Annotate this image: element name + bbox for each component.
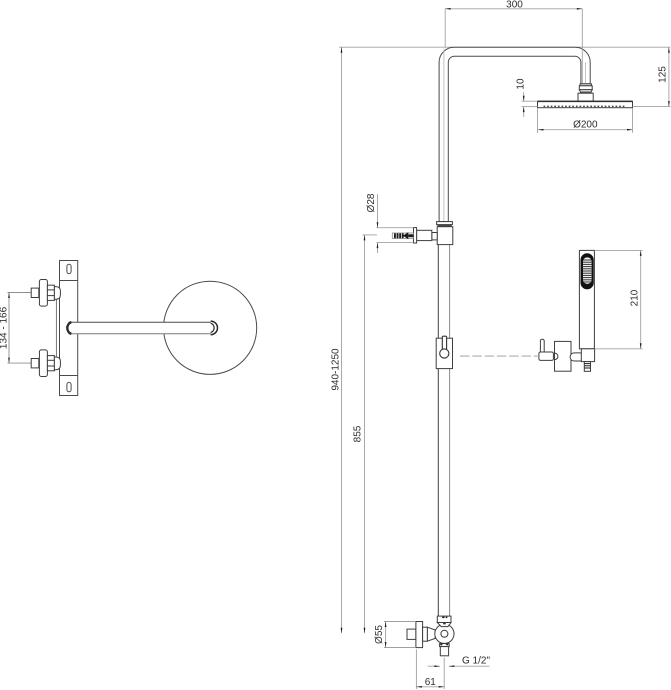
dimension 210 extension lines	[595, 249, 643, 251]
hose barb	[392, 233, 413, 239]
holder pivot	[555, 353, 558, 360]
diverter seal band	[437, 225, 451, 227]
slider bracket pin	[442, 336, 446, 350]
head connector nut	[579, 84, 592, 93]
head connector block	[578, 93, 593, 101]
nozzle dots	[544, 106, 625, 108]
svg-text:125: 125	[658, 66, 669, 83]
arm ball joint	[211, 321, 218, 335]
diverter stem	[417, 230, 432, 240]
diverter T body	[437, 227, 453, 245]
holder lever arm	[539, 352, 554, 360]
dimension O28 extension lines	[377, 227, 414, 229]
dimension 855	[364, 235, 366, 633]
dimension 300	[445, 8, 582, 10]
bottom valve inlet nut	[437, 616, 451, 627]
wall plate	[60, 261, 78, 396]
dimension 61 extension lines	[415, 650, 417, 690]
drop highlight line	[585, 63, 587, 84]
dimension 10	[523, 92, 525, 101]
svg-text:10: 10	[516, 78, 527, 90]
svg-text:300: 300	[506, 0, 523, 10]
dimension 61	[416, 686, 444, 688]
dimension 855 extension	[363, 234, 378, 236]
top fitting	[31, 280, 60, 307]
dimension 134-166 extension line top	[8, 292, 32, 294]
dimension O55 extension lines	[384, 621, 416, 623]
wall nipple	[407, 629, 416, 639]
dimension O55	[385, 622, 387, 648]
svg-text:Ø200: Ø200	[573, 119, 598, 130]
slider bracket	[436, 338, 452, 368]
wall flange	[416, 622, 423, 648]
holder lever	[540, 339, 544, 353]
diverter left port	[432, 233, 437, 240]
svg-text:Ø55: Ø55	[374, 625, 385, 644]
arm wall cap	[67, 322, 71, 334]
dimension O200 extension lines	[537, 108, 539, 133]
svg-text:61: 61	[425, 677, 437, 688]
dimension 210	[640, 250, 642, 348]
outlet tube	[440, 647, 448, 656]
holder arm	[570, 353, 581, 361]
svg-text:G 1/2": G 1/2"	[462, 656, 490, 667]
holder block	[555, 341, 572, 371]
valve body strip	[55, 299, 57, 357]
upper tube with top bend	[439, 47, 590, 221]
dimension 134-166 extension line bottom	[8, 362, 32, 364]
diverter flange	[414, 228, 417, 243]
svg-text:Ø28: Ø28	[366, 193, 377, 212]
hand shower hose nipple	[584, 362, 590, 372]
dimension 940-1250	[341, 47, 343, 633]
hand shower lower block	[581, 349, 594, 362]
diverter T collar	[437, 222, 453, 225]
dimension 10 extension lines	[522, 100, 538, 102]
outlet thread band	[440, 644, 450, 647]
svg-text:940-1250: 940-1250	[331, 348, 342, 391]
dimension 134-166	[8, 293, 10, 364]
slider knob	[440, 349, 449, 358]
dimension O28	[377, 194, 379, 228]
valve inner	[441, 630, 448, 637]
overhead shower disc (top view circle)	[164, 281, 257, 374]
extension line top (940-1250 / 125)	[339, 46, 670, 48]
G 1/2 leader	[428, 665, 440, 667]
dimension 125	[633, 106, 671, 108]
overhead shower head (front)	[538, 101, 633, 107]
dimension O200	[538, 129, 633, 131]
riser highlight line	[443, 50, 445, 222]
dashed reference line	[460, 355, 538, 357]
valve collar	[423, 627, 428, 641]
bottom fitting	[31, 350, 60, 377]
valve cone	[427, 627, 435, 641]
hand shower body	[579, 250, 594, 348]
svg-text:855: 855	[353, 425, 364, 442]
lower tube	[438, 245, 449, 617]
shower arm	[69, 322, 211, 334]
dimension 300 extension lines	[444, 9, 446, 47]
svg-text:210: 210	[629, 289, 640, 306]
hand shower spray face	[581, 253, 594, 289]
svg-text:134 - 166: 134 - 166	[0, 306, 10, 349]
valve body	[435, 624, 454, 643]
